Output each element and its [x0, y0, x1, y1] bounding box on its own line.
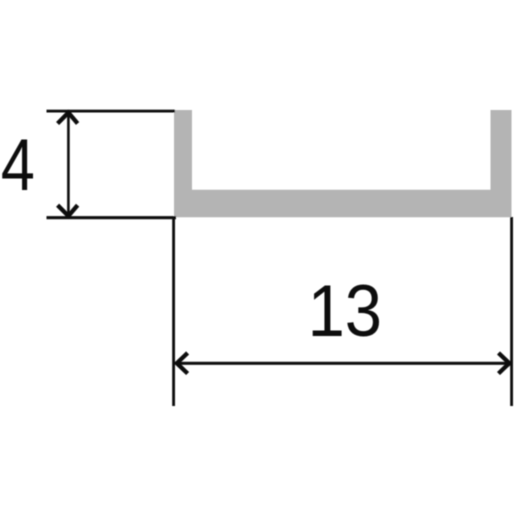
right extension line (width datum, right) — [510, 217, 513, 406]
svg-text:13: 13 — [308, 270, 382, 351]
vertical dimension line for "4" — [67, 112, 70, 216]
arrowhead down (bottom of "4" dimension) — [58, 205, 78, 216]
arrowhead up (top of "4" dimension) — [58, 113, 78, 124]
left extension line (width datum, left) — [172, 217, 175, 406]
bottom dimension line (height datum, bottom) — [47, 216, 177, 219]
svg-text:4: 4 — [1, 125, 35, 207]
arrowhead left ("13" dimension) — [177, 353, 188, 374]
U-channel profile cross-section (grey) — [174, 110, 512, 217]
arrowhead right ("13" dimension) — [499, 353, 510, 374]
horizontal dimension line for "13" — [176, 362, 510, 365]
top dimension line (height datum, top) — [47, 110, 176, 113]
